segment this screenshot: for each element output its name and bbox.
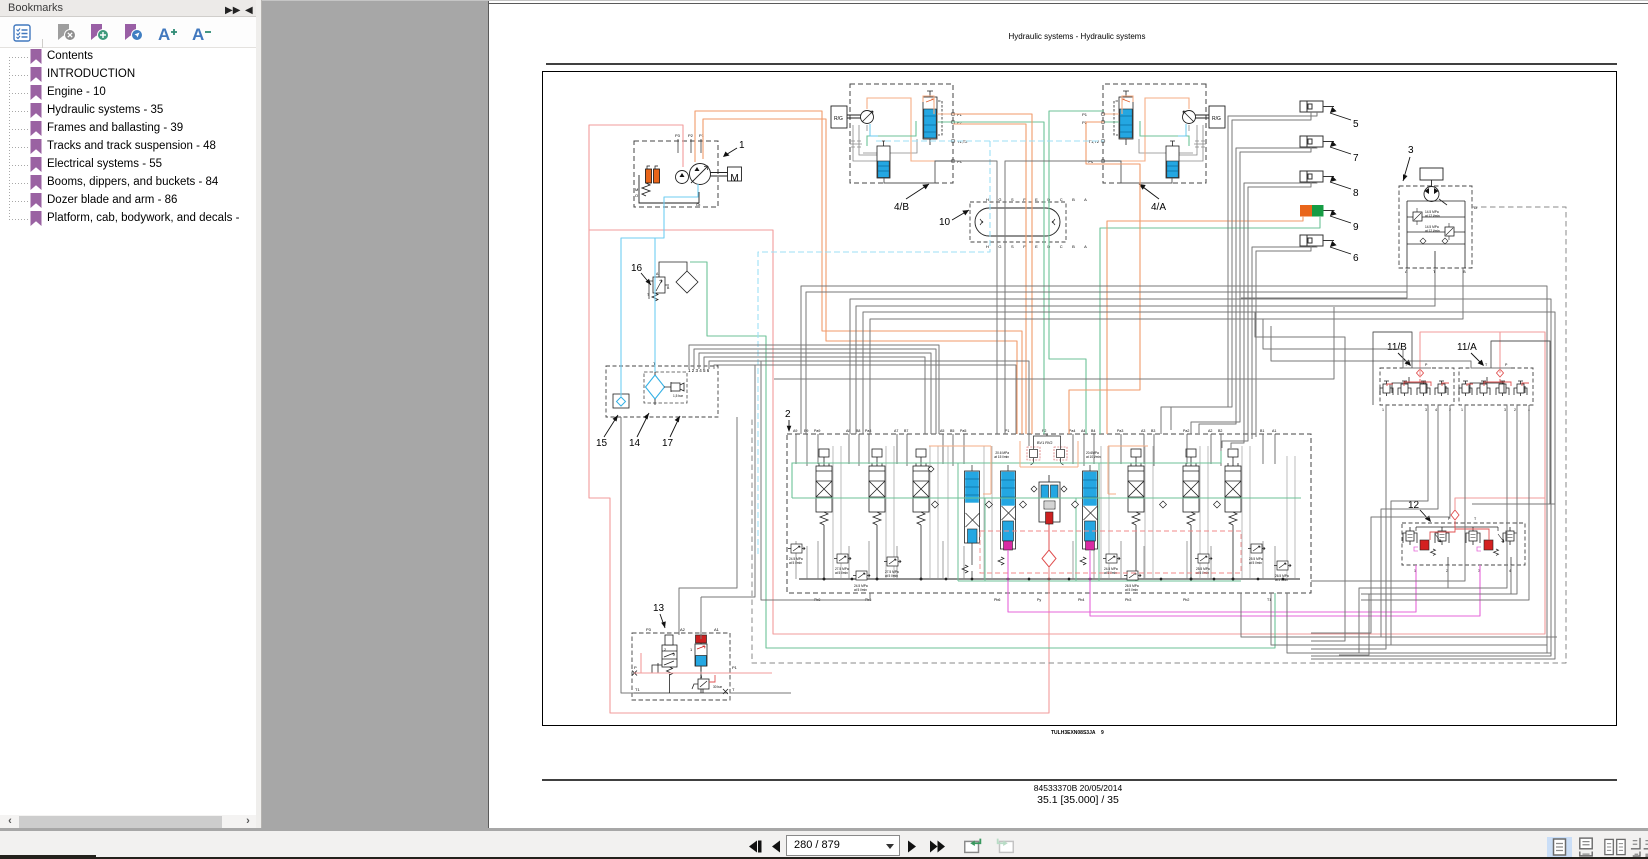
svg-text:BV1 RV2: BV1 RV2 (1037, 441, 1053, 445)
svg-text:at 5 l/min: at 5 l/min (1275, 578, 1288, 582)
svg-text:A2: A2 (1208, 429, 1212, 433)
svg-text:A1: A1 (714, 627, 720, 632)
svg-text:Pb2: Pb2 (1183, 598, 1189, 602)
svg-text:at 12 l/min: at 12 l/min (1425, 214, 1440, 218)
svg-text:Pa9: Pa9 (814, 429, 820, 433)
svg-text:T: T (732, 687, 735, 692)
svg-text:TULH3EXN08S3JA: TULH3EXN08S3JA (1051, 730, 1096, 736)
svg-text:A2: A2 (680, 627, 686, 632)
svg-text:A4: A4 (1081, 429, 1085, 433)
svg-text:P: P (1425, 363, 1428, 367)
svg-text:Pa2: Pa2 (1183, 429, 1189, 433)
svg-text:A: A (158, 25, 170, 43)
svg-text:Pb3: Pb3 (1125, 598, 1131, 602)
svg-text:8: 8 (1353, 188, 1359, 199)
svg-text:Pa3: Pa3 (1117, 429, 1123, 433)
svg-text:16: 16 (631, 263, 643, 274)
svg-text:1: 1 (739, 140, 745, 151)
svg-text:at 5 l/min: at 5 l/min (885, 574, 898, 578)
svg-text:A7: A7 (894, 429, 898, 433)
svg-text:9: 9 (1353, 222, 1359, 233)
svg-text:B4: B4 (1091, 429, 1095, 433)
svg-text:30 bar: 30 bar (713, 685, 723, 689)
svg-text:B5: B5 (950, 429, 954, 433)
svg-text:Py: Py (1037, 598, 1041, 602)
svg-text:M: M (635, 187, 638, 192)
svg-text:P: P (634, 665, 637, 670)
svg-text:A5: A5 (940, 429, 944, 433)
svg-text:1: 1 (690, 647, 693, 652)
svg-text:3: 3 (700, 674, 703, 679)
svg-text:2: 2 (785, 409, 791, 420)
svg-text:B7: B7 (904, 429, 908, 433)
svg-text:R/G: R/G (834, 116, 843, 122)
svg-text:A: A (192, 25, 204, 43)
svg-text:T: T (647, 293, 650, 297)
svg-text:3: 3 (1408, 145, 1414, 156)
svg-text:Gt: Gt (696, 202, 701, 207)
svg-text:A3: A3 (1141, 429, 1145, 433)
svg-text:P1: P1 (1082, 112, 1088, 117)
svg-text:11/A: 11/A (1457, 342, 1477, 353)
svg-text:A: A (656, 272, 659, 276)
svg-text:B2: B2 (1218, 429, 1222, 433)
svg-text:P1: P1 (732, 665, 738, 670)
svg-text:11/B: 11/B (1387, 342, 1407, 353)
svg-text:P3: P3 (675, 133, 681, 138)
svg-text:P1: P1 (1005, 429, 1009, 433)
svg-text:15: 15 (596, 438, 608, 449)
svg-text:14: 14 (629, 438, 641, 449)
svg-text:at 5 l/min: at 5 l/min (1125, 588, 1138, 592)
svg-text:7: 7 (1353, 153, 1359, 164)
svg-text:13: 13 (653, 603, 665, 614)
svg-text:at 5 l/min: at 5 l/min (789, 561, 802, 565)
svg-text:Pa4: Pa4 (1069, 429, 1075, 433)
svg-text:4: 4 (1435, 408, 1437, 412)
svg-text:A9: A9 (793, 429, 797, 433)
svg-text:1: 1 (1461, 408, 1463, 412)
svg-text:M: M (730, 173, 738, 184)
svg-text:H G S F E D C B A: H G S F E D C B A (986, 197, 1091, 202)
svg-text:O: O (635, 193, 638, 198)
svg-text:at 5 l/min: at 5 l/min (835, 571, 848, 575)
svg-text:P: P (1505, 363, 1508, 367)
svg-text:P3: P3 (646, 627, 652, 632)
svg-text:35.1 [35.000] / 35: 35.1 [35.000] / 35 (1037, 794, 1119, 806)
svg-text:3: 3 (1425, 408, 1427, 412)
svg-text:A1: A1 (1272, 429, 1276, 433)
svg-text:1,5 bar: 1,5 bar (673, 394, 684, 398)
svg-text:84533370B 20/05/2014: 84533370B 20/05/2014 (1034, 783, 1123, 793)
svg-text:B1: B1 (1260, 429, 1264, 433)
svg-text:at 10 l/min: at 10 l/min (1086, 455, 1101, 459)
svg-text:2: 2 (1514, 408, 1516, 412)
svg-text:T1: T1 (635, 687, 640, 692)
svg-text:at 15 l/min: at 15 l/min (994, 455, 1009, 459)
svg-text:6: 6 (1353, 253, 1359, 264)
svg-text:B8: B8 (856, 429, 860, 433)
svg-text:B: B (667, 286, 670, 290)
svg-text:R/G: R/G (1212, 116, 1221, 122)
svg-text:P2: P2 (688, 133, 694, 138)
svg-text:9: 9 (1101, 730, 1104, 736)
svg-text:1: 1 (1382, 408, 1384, 412)
svg-text:at 12 l/min: at 12 l/min (1425, 229, 1440, 233)
svg-text:P1: P1 (699, 133, 705, 138)
svg-text:10: 10 (939, 217, 951, 228)
svg-text:Hydraulic systems - Hydraulic: Hydraulic systems - Hydraulic systems (1009, 32, 1146, 41)
svg-text:Pb6: Pb6 (994, 598, 1000, 602)
svg-text:at 5 l/min: at 5 l/min (1249, 561, 1262, 565)
svg-text:5: 5 (1353, 119, 1359, 130)
svg-text:4/A: 4/A (1151, 202, 1166, 213)
svg-text:Pb4: Pb4 (1078, 598, 1084, 602)
svg-text:4/B: 4/B (894, 202, 909, 213)
svg-text:Pa5: Pa5 (960, 429, 966, 433)
svg-text:at 5 l/min: at 5 l/min (854, 588, 867, 592)
svg-text:P: P (1448, 517, 1451, 521)
svg-text:17: 17 (662, 438, 674, 449)
svg-text:T: T (1485, 363, 1488, 367)
svg-text:H G S F E D C B A: H G S F E D C B A (986, 244, 1091, 249)
svg-text:3: 3 (1504, 408, 1506, 412)
svg-text:B3: B3 (1151, 429, 1155, 433)
svg-text:T: T (1474, 517, 1477, 521)
